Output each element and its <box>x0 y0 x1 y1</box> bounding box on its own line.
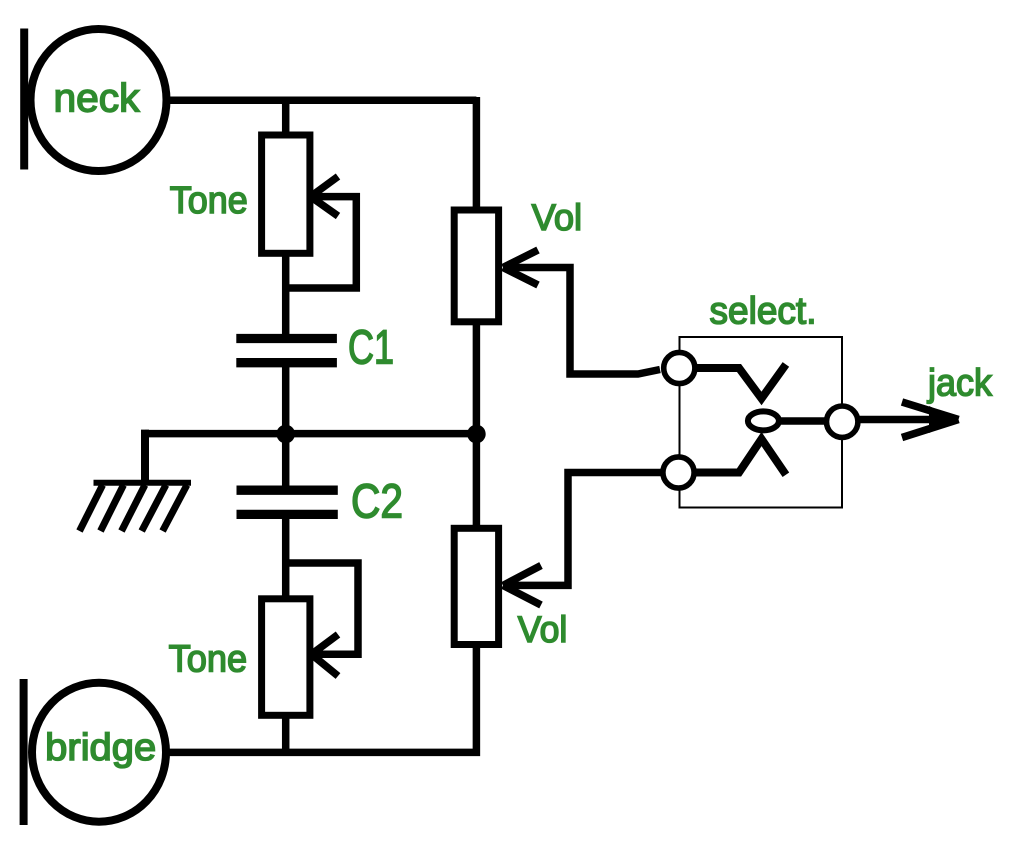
svg-text:Vol: Vol <box>532 197 583 238</box>
wire C2 to Tone2 top <box>282 515 290 600</box>
svg-text:neck: neck <box>54 77 141 121</box>
svg-text:bridge: bridge <box>45 727 156 769</box>
svg-text:Tone: Tone <box>169 639 248 681</box>
wire bus to ground symbol <box>145 434 149 482</box>
junction node (Vol column and bus) <box>467 425 486 444</box>
selector pole (wiper ellipse) <box>748 411 779 430</box>
svg-text:C2: C2 <box>351 476 403 529</box>
selector terminal (bottom, from Vol2) <box>663 457 694 488</box>
wiper arrow Tone1 <box>311 177 339 217</box>
wire Tone1 bottom to C1 <box>282 253 290 336</box>
wire Vol1 wiper to selector top terminal <box>503 268 660 375</box>
wire junction down to Vol2 top <box>473 431 481 530</box>
potentiometer Tone (neck) <box>262 135 310 253</box>
selector terminal (top, from Vol1) <box>664 352 695 383</box>
wire Tone2 wiper loop to top terminal <box>286 563 358 654</box>
selector switch box <box>680 337 843 508</box>
wire Tone2 bottom to bridge bus <box>282 715 290 754</box>
ground bus wire (horizontal) <box>145 430 476 438</box>
potentiometer Tone (bridge) <box>262 599 310 716</box>
wire C1 to ground bus <box>282 365 290 436</box>
wire output to jack <box>856 416 957 424</box>
ground symbol <box>80 483 192 531</box>
junction node (C legs and bus) <box>276 425 295 444</box>
wiper arrow Tone2 <box>312 635 339 677</box>
wire pole to output terminal <box>778 417 828 425</box>
wire neck output bus (top horizontal) <box>163 97 476 105</box>
capacitor C2 <box>237 490 338 514</box>
capacitor C1 <box>236 339 337 363</box>
pickup P2 bridge <box>24 679 166 825</box>
selector output terminal <box>827 406 858 437</box>
wire branch down to Tone1 <box>282 97 290 136</box>
selector top throw contact <box>697 364 786 398</box>
svg-text:Vol: Vol <box>518 609 568 650</box>
potentiometer Vol (bridge) <box>454 528 498 644</box>
wire Tone1 wiper loop to bottom terminal <box>286 197 357 288</box>
potentiometer Vol (neck) <box>454 210 498 322</box>
wiper arrow Vol1 <box>503 250 538 285</box>
jack arrowhead <box>902 402 959 438</box>
svg-text:jack: jack <box>927 363 993 405</box>
wire bus down to C2 <box>282 431 290 491</box>
pickup P1 neck <box>24 29 166 172</box>
svg-text:C1: C1 <box>348 322 394 375</box>
wiper arrow Vol2 <box>503 566 541 606</box>
wire Vol2 wiper to selector bottom terminal <box>503 473 664 586</box>
wire Vol1 bottom to ground-bus junction <box>473 320 481 436</box>
svg-text:Tone: Tone <box>170 180 248 222</box>
svg-text:select.: select. <box>710 290 817 332</box>
selector bottom throw contact <box>696 439 786 475</box>
wire top bus down to Vol1 <box>473 97 481 212</box>
wire Vol2 bottom to bridge bus <box>166 641 476 752</box>
